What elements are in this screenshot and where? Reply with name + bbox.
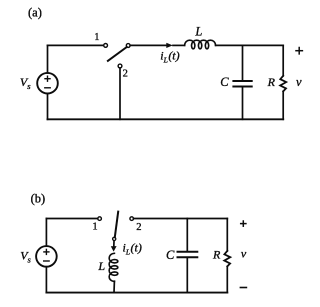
capacitor C top lead (a) <box>242 45 244 80</box>
wire pivot to arrow (a) <box>130 44 166 46</box>
resistor R bottom lead (a) <box>282 91 284 119</box>
plus sign (b) <box>241 221 246 226</box>
capacitor C plates (b) <box>178 252 198 257</box>
current arrow iL (a) <box>166 43 173 48</box>
svg-text:2: 2 <box>136 222 141 233</box>
resistor R zigzag (b) <box>224 251 230 267</box>
svg-text:(b): (b) <box>31 191 46 205</box>
switch terminal 2 (a) <box>118 64 122 68</box>
wire terminal 2 to top-right corner (b) <box>134 218 228 220</box>
svg-text:L: L <box>97 259 105 273</box>
switch pivot node (a) <box>126 44 130 48</box>
plus sign (a) <box>296 48 302 54</box>
bottom wire (b) <box>46 292 227 294</box>
capacitor C plates (a) <box>233 81 251 87</box>
wire left vertical lower (a) <box>47 94 49 120</box>
wire top-left segment (a) <box>48 44 104 46</box>
svg-text:2: 2 <box>123 69 128 80</box>
voltage source Vs (b) <box>36 246 57 267</box>
switch blade (b) <box>115 212 118 238</box>
resistor R zigzag (a) <box>280 76 286 92</box>
switch pivot node (b) <box>113 237 116 240</box>
resistor R bottom lead (b) <box>226 266 228 292</box>
svg-text:v: v <box>296 75 302 89</box>
switch terminal 1 (a) <box>104 44 108 48</box>
svg-text:v: v <box>241 247 247 261</box>
svg-text:1: 1 <box>94 32 99 43</box>
bottom wire (a) <box>48 118 284 120</box>
svg-text:iL(t): iL(t) <box>123 241 142 257</box>
wire terminal-2 branch vertical (a) <box>119 68 121 119</box>
inductor L (a) <box>185 40 216 49</box>
svg-text:R: R <box>267 75 276 89</box>
switch terminal 2 (b) <box>130 217 134 221</box>
svg-text:(a): (a) <box>28 6 42 20</box>
svg-text:L: L <box>194 24 202 38</box>
wire left vertical upper (b) <box>45 219 47 247</box>
resistor R top lead (b) <box>226 219 228 251</box>
wire inductor to top-right corner (a) <box>216 44 284 46</box>
wire left vertical upper (a) <box>47 45 49 73</box>
wire left vertical lower (b) <box>45 267 47 293</box>
capacitor C bottom lead (a) <box>242 88 244 120</box>
svg-text:iL(t): iL(t) <box>160 48 179 64</box>
resistor R top lead (a) <box>282 45 284 75</box>
svg-text:C: C <box>220 75 229 89</box>
capacitor C top lead (b) <box>186 219 188 251</box>
voltage source Vs (a) <box>37 73 58 94</box>
wire arrow to inductor (a) <box>173 44 185 46</box>
minus sign (b) <box>240 287 246 289</box>
switch terminal 1 (b) <box>98 217 102 221</box>
svg-text:1: 1 <box>92 222 97 233</box>
wire inductor bottom lead (b) <box>113 281 115 292</box>
svg-text:C: C <box>166 248 175 262</box>
wire top-left segment (b) <box>46 218 97 220</box>
svg-text:Vs: Vs <box>20 248 31 264</box>
svg-text:Vs: Vs <box>20 75 31 91</box>
svg-text:R: R <box>212 248 221 262</box>
inductor L (b) <box>109 253 118 281</box>
capacitor C bottom lead (b) <box>186 258 188 292</box>
switch blade (a) <box>108 47 127 61</box>
current arrow iL (b) <box>111 241 117 251</box>
